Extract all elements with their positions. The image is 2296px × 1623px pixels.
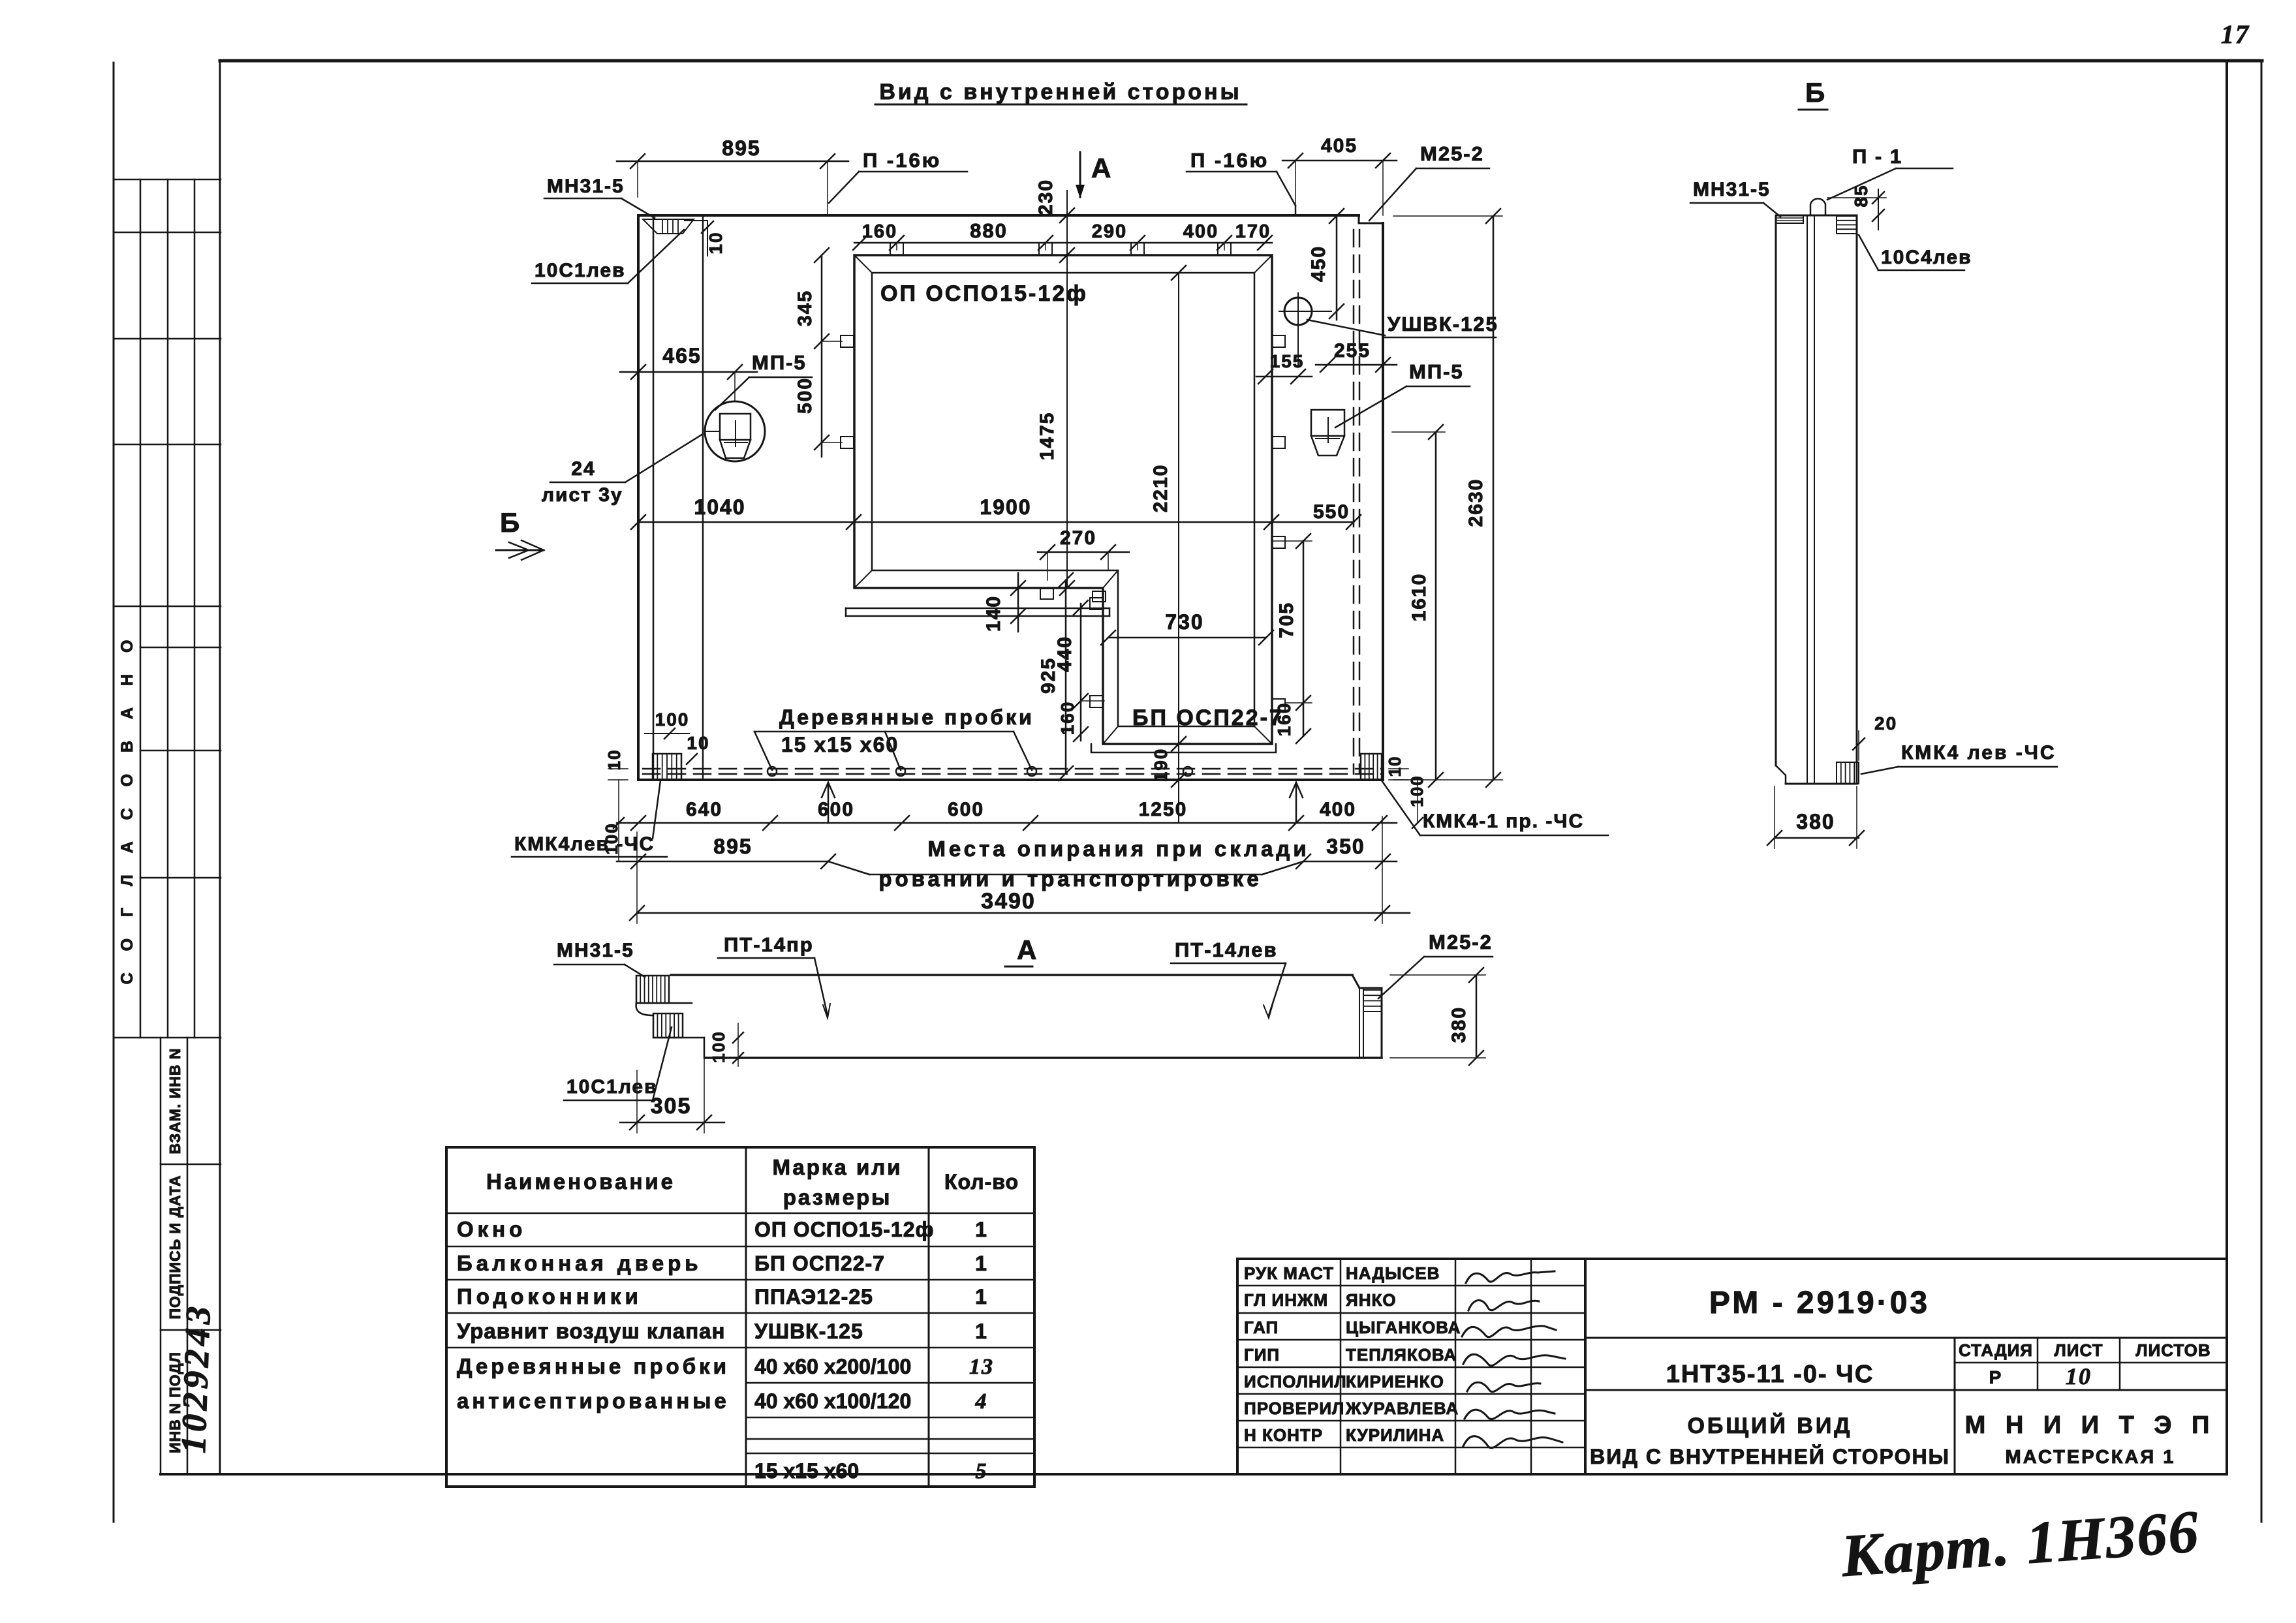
- svg-text:3490: 3490: [981, 889, 1036, 914]
- svg-text:ЛИСТОВ: ЛИСТОВ: [2135, 1340, 2211, 1360]
- svg-text:Кол-во: Кол-во: [944, 1170, 1019, 1194]
- svg-text:ГАП: ГАП: [1244, 1318, 1279, 1337]
- fixing tabs under sill: [1040, 589, 1053, 599]
- panel top-right step: [1358, 215, 1360, 223]
- svg-text:УШВК-125: УШВК-125: [754, 1320, 863, 1343]
- svg-text:500: 500: [794, 377, 816, 414]
- svg-text:УШВК-125: УШВК-125: [1388, 313, 1498, 335]
- section B cap P-1: [1810, 198, 1825, 215]
- dimension 730: [1108, 637, 1266, 639]
- svg-text:Деревянные пробки: Деревянные пробки: [779, 705, 1034, 729]
- svg-text:Марка или: Марка или: [773, 1155, 903, 1179]
- svg-text:размеры: размеры: [783, 1185, 892, 1209]
- svg-text:10: 10: [706, 231, 726, 254]
- svg-text:ТЕПЛЯКОВА: ТЕПЛЯКОВА: [1346, 1345, 1457, 1365]
- svg-text:Деревянные пробки: Деревянные пробки: [457, 1354, 730, 1378]
- svg-text:450: 450: [1308, 245, 1329, 282]
- svg-text:730: 730: [1165, 610, 1203, 634]
- svg-text:10: 10: [687, 733, 709, 753]
- svg-text:Окно: Окно: [457, 1217, 526, 1241]
- svg-text:МП-5: МП-5: [1409, 360, 1464, 383]
- anchor bracket MN31-5 at panel top-left: [643, 219, 694, 234]
- svg-text:40 х60 х200/100: 40 х60 х200/100: [754, 1355, 911, 1378]
- svg-text:ЛИСТ: ЛИСТ: [2055, 1340, 2103, 1360]
- connector block KMK4 bottom-left: [653, 754, 681, 780]
- svg-text:1040: 1040: [694, 495, 745, 519]
- panel bottom edge: [638, 779, 1383, 781]
- svg-text:РМ - 2919·03: РМ - 2919·03: [1709, 1286, 1930, 1320]
- svg-text:880: 880: [970, 219, 1008, 242]
- svg-text:2210: 2210: [1150, 464, 1171, 513]
- sheet frame right inner line: [2226, 61, 2228, 1474]
- svg-text:антисептированные: антисептированные: [457, 1389, 730, 1413]
- svg-text:1НТ35-11 -0- ЧС: 1НТ35-11 -0- ЧС: [1666, 1361, 1874, 1388]
- svg-text:ГИП: ГИП: [1244, 1345, 1280, 1365]
- svg-text:лист 3у: лист 3у: [542, 484, 623, 506]
- top dimension chain 160 880 290 400 170: [854, 242, 1272, 244]
- panel top edge: [638, 214, 1359, 217]
- extension lines from chain to window top: [896, 243, 897, 250]
- dimension 440 160 left of door: [1080, 604, 1082, 741]
- svg-text:М Н И И Т Э П: М Н И И Т Э П: [1965, 1412, 2216, 1439]
- parts table column lines: [745, 1147, 747, 1487]
- svg-text:400: 400: [1320, 799, 1356, 820]
- svg-text:290: 290: [1092, 221, 1127, 242]
- svg-text:КМК4-1 пр. -ЧС: КМК4-1 пр. -ЧС: [1423, 811, 1584, 832]
- svg-text:13: 13: [969, 1355, 994, 1379]
- svg-text:БП ОСП22-7: БП ОСП22-7: [754, 1252, 885, 1275]
- svg-text:РУК МАСТ: РУК МАСТ: [1244, 1263, 1334, 1283]
- svg-text:ИСПОЛНИЛ: ИСПОЛНИЛ: [1244, 1372, 1347, 1391]
- svg-text:170: 170: [1235, 221, 1271, 242]
- parts table outer box: [446, 1147, 1034, 1487]
- dimension 405 top-right: [1282, 160, 1397, 162]
- dimension 140: [1017, 573, 1019, 632]
- svg-text:П -16ю: П -16ю: [863, 149, 941, 172]
- svg-text:1250: 1250: [1139, 799, 1188, 820]
- section B 10S4lev block: [1837, 216, 1857, 234]
- svg-text:10: 10: [604, 749, 624, 771]
- svg-text:ПРОВЕРИЛ: ПРОВЕРИЛ: [1244, 1399, 1344, 1418]
- svg-text:С О Г Л А С О В А Н О: С О Г Л А С О В А Н О: [118, 632, 136, 985]
- svg-text:705: 705: [1276, 602, 1297, 638]
- svg-text:ППАЭ12-25: ППАЭ12-25: [754, 1285, 873, 1308]
- air valve UShVK-125 circle: [1284, 298, 1312, 325]
- dimension 450 right: [1336, 216, 1338, 320]
- svg-text:КУРИЛИНА: КУРИЛИНА: [1346, 1425, 1444, 1445]
- svg-text:А: А: [1091, 153, 1112, 183]
- svg-text:1610: 1610: [1408, 573, 1430, 622]
- window and door opening outer outline: [854, 255, 1272, 744]
- svg-text:305: 305: [651, 1094, 692, 1119]
- svg-text:10С4лев: 10С4лев: [1881, 247, 1972, 268]
- svg-text:М25-2: М25-2: [1420, 142, 1484, 165]
- dimension 2210 190 through door: [1178, 273, 1179, 823]
- svg-text:Р: Р: [1989, 1367, 2003, 1387]
- svg-text:270: 270: [1060, 527, 1096, 549]
- plug marks on dashed line: [768, 767, 777, 776]
- svg-text:ОП ОСПО15-12ф: ОП ОСПО15-12ф: [880, 281, 1088, 306]
- sheet frame bottom line: [161, 1473, 2227, 1476]
- section B slab body: [1776, 215, 1857, 217]
- svg-text:А: А: [1017, 935, 1038, 965]
- signature table rows: [1237, 1285, 1585, 1287]
- svg-text:255: 255: [1334, 340, 1371, 362]
- svg-text:160: 160: [1057, 701, 1078, 735]
- parts table row lines: [446, 1213, 1034, 1214]
- svg-text:МП-5: МП-5: [752, 351, 807, 374]
- section A left edge curve: [636, 1003, 653, 1015]
- section A slab outline: [671, 974, 1352, 976]
- sheet frame top line: [220, 59, 2262, 63]
- svg-text:П -16ю: П -16ю: [1190, 149, 1269, 172]
- svg-text:1: 1: [975, 1285, 988, 1308]
- dimension row 1040 1900 550: [638, 521, 1354, 523]
- svg-text:Вид с внутренней стороны: Вид с внутренней стороны: [879, 80, 1241, 104]
- plug leader diagonals: [754, 732, 772, 770]
- svg-text:СТАДИЯ: СТАДИЯ: [1959, 1340, 2033, 1360]
- svg-text:465: 465: [662, 344, 701, 367]
- svg-text:Карт. 1Н366: Карт. 1Н366: [1838, 1498, 2201, 1589]
- lower-left stamp box verticals: [160, 1038, 162, 1474]
- window sill board lines: [846, 608, 1109, 610]
- svg-text:Б: Б: [1805, 77, 1826, 108]
- dimension 85 section B: [1878, 189, 1879, 230]
- svg-text:ПТ-14пр: ПТ-14пр: [724, 933, 814, 956]
- stadiya list listov table: [1954, 1338, 1956, 1474]
- svg-text:1475: 1475: [1036, 412, 1058, 461]
- dimension 155: [1256, 376, 1312, 378]
- svg-text:4: 4: [975, 1389, 988, 1414]
- small tab with 10 offset on top edge: [685, 220, 707, 221]
- title block outer lines: [1237, 1258, 2227, 1260]
- svg-text:ВЗАМ. ИНВ N: ВЗАМ. ИНВ N: [166, 1047, 183, 1154]
- svg-text:Н КОНТР: Н КОНТР: [1244, 1425, 1323, 1445]
- svg-text:100: 100: [709, 1030, 728, 1062]
- svg-text:1: 1: [975, 1252, 988, 1275]
- svg-text:24: 24: [571, 458, 595, 480]
- svg-text:405: 405: [1321, 135, 1357, 157]
- section B KMK4 block bottom: [1837, 762, 1859, 784]
- sheet frame left inner line: [219, 61, 221, 1474]
- svg-text:5: 5: [976, 1459, 988, 1483]
- svg-text:ровании и транспортировке: ровании и транспортировке: [878, 867, 1262, 891]
- svg-text:155: 155: [1270, 351, 1305, 371]
- svg-text:160: 160: [862, 221, 897, 242]
- svg-text:П - 1: П - 1: [1852, 145, 1902, 168]
- svg-text:10: 10: [1385, 756, 1404, 777]
- svg-text:160: 160: [1274, 702, 1294, 737]
- svg-text:Б: Б: [500, 507, 521, 538]
- svg-text:190: 190: [1151, 748, 1171, 782]
- dimension 1610 right: [1435, 432, 1437, 780]
- mesta opiraniya bracket and text: [828, 861, 869, 874]
- svg-text:ЖУРАВЛЕВА: ЖУРАВЛЕВА: [1345, 1399, 1459, 1418]
- svg-text:ОБЩИЙ ВИД: ОБЩИЙ ВИД: [1687, 1413, 1852, 1438]
- panel inner vertical line: [702, 215, 704, 780]
- svg-text:640: 640: [686, 799, 722, 820]
- section A MN31-5 block left: [636, 976, 669, 1003]
- svg-text:Балконная дверь: Балконная дверь: [457, 1251, 702, 1275]
- support arrow left: [828, 782, 830, 823]
- dimension 305: [620, 1122, 724, 1124]
- svg-text:ПОДПИСЬ И ДАТА: ПОДПИСЬ И ДАТА: [166, 1175, 183, 1319]
- svg-text:440: 440: [1054, 636, 1076, 672]
- fixing tabs on window left edge: [841, 335, 854, 347]
- section B MN31-5 hatch strip: [1776, 215, 1803, 223]
- svg-text:МН31-5: МН31-5: [557, 940, 634, 961]
- svg-text:ПТ-14лев: ПТ-14лев: [1175, 938, 1278, 961]
- sheet frame right outer line: [2261, 61, 2263, 1522]
- svg-text:НАДЫСЕВ: НАДЫСЕВ: [1346, 1263, 1440, 1283]
- svg-text:1: 1: [975, 1218, 988, 1241]
- dimension 380 section B: [1775, 837, 1859, 839]
- svg-text:Подоконники: Подоконники: [457, 1284, 642, 1308]
- fixing tabs on window top edge: [890, 243, 903, 255]
- svg-text:Уравнит воздуш клапан: Уравнит воздуш клапан: [457, 1319, 725, 1343]
- svg-text:895: 895: [713, 835, 752, 858]
- svg-text:600: 600: [818, 799, 854, 820]
- svg-text:МАСТЕРСКАЯ 1: МАСТЕРСКАЯ 1: [2006, 1447, 2176, 1468]
- dimension 255: [1316, 364, 1397, 366]
- svg-text:БП ОСП22-7: БП ОСП22-7: [1132, 705, 1284, 730]
- svg-text:МН31-5: МН31-5: [1693, 179, 1771, 200]
- sheet left edge line: [113, 63, 115, 1522]
- fixing tabs on door left edge: [1090, 598, 1103, 610]
- svg-text:380: 380: [1796, 810, 1835, 833]
- svg-text:15 х15 х60: 15 х15 х60: [754, 1459, 859, 1483]
- dimension 925 left of door: [1065, 580, 1067, 773]
- svg-text:ВИД С ВНУТРЕННЕЙ СТОРОНЫ: ВИД С ВНУТРЕННЕЙ СТОРОНЫ: [1590, 1445, 1950, 1468]
- dimension 705 160 right of door: [1303, 541, 1305, 736]
- svg-text:17: 17: [2221, 20, 2250, 49]
- bottom chain 640 600 600 1250 400: [617, 822, 1397, 824]
- connector block KMK4-1 bottom-right: [1361, 754, 1382, 780]
- anchor symbol MP-5 right: [1311, 410, 1344, 436]
- svg-text:10: 10: [2066, 1363, 2092, 1389]
- door threshold: [1091, 744, 1276, 752]
- svg-text:КМК4 лев -ЧС: КМК4 лев -ЧС: [1901, 742, 2056, 764]
- section arrow A top: [1079, 152, 1081, 197]
- svg-text:1900: 1900: [980, 495, 1031, 519]
- vertical dimension line 230 / 1475: [1066, 191, 1068, 588]
- dimension 270: [1038, 551, 1129, 553]
- dimension 2630 far right: [1493, 216, 1495, 780]
- svg-text:Наименование: Наименование: [486, 1169, 675, 1194]
- dimension 3490: [637, 912, 1410, 914]
- svg-text:380: 380: [1448, 1006, 1470, 1043]
- svg-text:1029243: 1029243: [174, 1302, 218, 1454]
- dimension 465: [620, 371, 757, 373]
- fixing tabs on door right edge: [1272, 335, 1285, 347]
- svg-text:20: 20: [1874, 713, 1897, 734]
- svg-text:600: 600: [948, 799, 984, 820]
- approval table verticals: [140, 179, 142, 1038]
- dashed vertical pair near right edge: [1353, 230, 1355, 774]
- dimension 380 section A: [1476, 975, 1478, 1058]
- panel right edge: [1382, 223, 1384, 780]
- svg-text:2630: 2630: [1465, 478, 1487, 527]
- svg-text:ГЛ ИНЖМ: ГЛ ИНЖМ: [1244, 1290, 1328, 1310]
- svg-text:895: 895: [722, 136, 760, 160]
- approval table horizontals: [114, 179, 221, 181]
- svg-text:Места опирания при склади: Места опирания при склади: [927, 837, 1309, 861]
- chain 895 and 350: [617, 861, 828, 863]
- section A right connector M25-2: [1359, 988, 1360, 1058]
- svg-text:ЦЫГАНКОВА: ЦЫГАНКОВА: [1346, 1318, 1461, 1337]
- svg-text:М25-2: М25-2: [1429, 931, 1493, 953]
- section A 10S1lev block: [653, 1013, 683, 1038]
- svg-text:140: 140: [983, 595, 1004, 632]
- svg-text:ОП ОСПО15-12ф: ОП ОСПО15-12ф: [754, 1218, 935, 1241]
- svg-text:10С1лев: 10С1лев: [566, 1076, 658, 1098]
- label UShVK-125: [1307, 320, 1385, 335]
- svg-text:1: 1: [975, 1320, 988, 1343]
- svg-text:400: 400: [1183, 221, 1218, 242]
- svg-text:85: 85: [1851, 184, 1871, 207]
- svg-text:230: 230: [1035, 179, 1057, 215]
- dimension 895 top-left: [617, 161, 848, 162]
- signatures handwritten: [1466, 1271, 1555, 1283]
- svg-text:КИРИЕНКО: КИРИЕНКО: [1346, 1372, 1444, 1391]
- dashed horizontal pair near bottom: [643, 768, 1383, 770]
- opening corner reveal diagonals: [854, 255, 872, 273]
- svg-text:ЯНКО: ЯНКО: [1346, 1290, 1397, 1310]
- svg-text:550: 550: [1313, 501, 1350, 523]
- anchor detail circle MP-5 left: [705, 401, 765, 461]
- svg-text:100: 100: [1407, 775, 1427, 807]
- svg-text:100: 100: [655, 709, 690, 730]
- dimension 345 500 window left: [821, 255, 823, 457]
- lower-left stamp box rows: [161, 1164, 221, 1166]
- svg-text:15 х15 х60: 15 х15 х60: [781, 733, 899, 756]
- svg-text:40 х60 х100/120: 40 х60 х100/120: [754, 1389, 911, 1413]
- svg-text:350: 350: [1326, 835, 1365, 858]
- support arrow right: [1295, 782, 1297, 823]
- section A dim 100: [737, 1023, 739, 1066]
- svg-text:345: 345: [794, 290, 816, 326]
- svg-text:МН31-5: МН31-5: [547, 176, 625, 197]
- svg-text:КМК4лев -ЧС: КМК4лев -ЧС: [514, 833, 655, 855]
- svg-text:10С1лев: 10С1лев: [535, 260, 626, 281]
- panel left edge double line: [637, 215, 640, 780]
- window and door opening inner outline: [872, 273, 1254, 726]
- signature table columns: [1340, 1259, 1342, 1474]
